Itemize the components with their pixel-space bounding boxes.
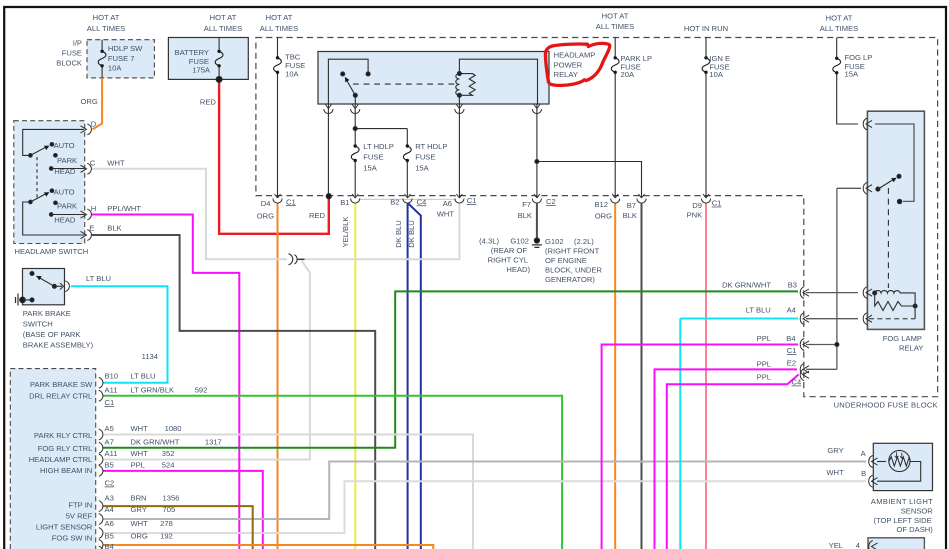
svg-text:LT GRN/BLK: LT GRN/BLK [131, 386, 175, 395]
svg-text:ORG: ORG [80, 97, 97, 106]
svg-text:175A: 175A [192, 66, 211, 75]
svg-text:HOT AT: HOT AT [210, 13, 237, 22]
svg-text:LT BLU: LT BLU [86, 274, 111, 283]
svg-text:FTP IN: FTP IN [68, 501, 92, 510]
svg-text:15A: 15A [845, 70, 859, 79]
svg-text:(BASE OF PARK: (BASE OF PARK [23, 330, 81, 339]
svg-text:A4: A4 [105, 505, 114, 514]
svg-text:WHT: WHT [131, 449, 149, 458]
svg-text:BRAKE ASSEMBLY): BRAKE ASSEMBLY) [23, 341, 94, 350]
svg-text:D: D [91, 120, 97, 129]
svg-text:ALL TIMES: ALL TIMES [87, 24, 125, 33]
svg-text:HOT IN RUN: HOT IN RUN [684, 24, 728, 33]
svg-text:278: 278 [160, 519, 173, 528]
svg-text:BLOCK, UNDER: BLOCK, UNDER [545, 266, 602, 275]
svg-text:PPL: PPL [757, 359, 771, 368]
svg-text:592: 592 [195, 386, 208, 395]
svg-text:PARK: PARK [57, 156, 77, 165]
svg-text:C2: C2 [546, 197, 556, 206]
svg-text:DK GRN/WHT: DK GRN/WHT [131, 438, 180, 447]
svg-text:(REAR OF: (REAR OF [491, 246, 528, 255]
svg-text:10A: 10A [709, 70, 723, 79]
svg-text:4: 4 [856, 541, 860, 549]
svg-text:B3: B3 [788, 280, 797, 289]
svg-text:FOG RLY CTRL: FOG RLY CTRL [38, 444, 93, 453]
svg-text:B1: B1 [340, 198, 349, 207]
svg-text:SWITCH: SWITCH [23, 320, 53, 329]
svg-text:FOG SW IN: FOG SW IN [52, 534, 93, 543]
svg-text:A11: A11 [105, 386, 118, 395]
svg-text:B12: B12 [594, 200, 608, 209]
svg-text:WHT: WHT [826, 468, 844, 477]
svg-text:WHT: WHT [437, 210, 455, 219]
svg-text:ALL TIMES: ALL TIMES [596, 22, 634, 31]
svg-text:SENSOR: SENSOR [901, 507, 934, 516]
svg-text:A7: A7 [105, 438, 114, 447]
svg-text:PPL/WHT: PPL/WHT [107, 204, 141, 213]
svg-text:C1: C1 [467, 196, 477, 205]
svg-text:YEL/BLK: YEL/BLK [341, 217, 350, 248]
svg-text:HOT AT: HOT AT [602, 12, 629, 21]
svg-text:RELAY: RELAY [554, 70, 578, 79]
svg-text:HEAD): HEAD) [506, 265, 530, 274]
svg-text:C4: C4 [417, 197, 427, 206]
svg-text:GRY: GRY [827, 446, 843, 455]
svg-text:FUSE: FUSE [363, 153, 383, 162]
svg-text:AUTO: AUTO [54, 141, 75, 150]
svg-text:ALL TIMES: ALL TIMES [820, 24, 858, 33]
svg-text:C: C [90, 158, 96, 167]
svg-text:BLK: BLK [518, 211, 532, 220]
svg-text:PARK BRAKE SW: PARK BRAKE SW [30, 380, 93, 389]
svg-text:RIGHT CYL: RIGHT CYL [488, 256, 528, 265]
svg-text:GENERATOR): GENERATOR) [545, 275, 595, 284]
svg-text:FOG LP: FOG LP [845, 53, 873, 62]
svg-text:PPL: PPL [757, 334, 771, 343]
svg-text:HEAD: HEAD [54, 167, 76, 176]
svg-text:BATTERY: BATTERY [175, 48, 209, 57]
svg-text:1356: 1356 [163, 494, 180, 503]
svg-text:C1: C1 [787, 346, 797, 355]
svg-text:OF ENGINE: OF ENGINE [545, 256, 587, 265]
svg-text:524: 524 [162, 460, 175, 469]
svg-text:ORG: ORG [131, 531, 148, 540]
svg-text:352: 352 [162, 449, 175, 458]
svg-text:HOT AT: HOT AT [826, 14, 853, 23]
svg-text:10A: 10A [108, 64, 122, 73]
svg-text:15A: 15A [363, 163, 377, 172]
svg-text:D9: D9 [692, 201, 702, 210]
svg-text:A6: A6 [443, 199, 452, 208]
svg-text:192: 192 [160, 531, 173, 540]
svg-text:B5: B5 [105, 460, 114, 469]
svg-text:20A: 20A [621, 70, 635, 79]
svg-text:B10: B10 [105, 372, 119, 381]
svg-text:RED: RED [309, 211, 326, 220]
svg-text:BLK: BLK [107, 223, 121, 232]
svg-text:RELAY: RELAY [899, 343, 923, 352]
svg-text:A11: A11 [105, 449, 118, 458]
svg-text:5V REF: 5V REF [66, 512, 93, 521]
svg-text:LT BLU: LT BLU [131, 372, 156, 381]
svg-text:BRN: BRN [131, 494, 147, 503]
svg-text:(TOP LEFT SIDE: (TOP LEFT SIDE [873, 516, 931, 525]
svg-text:C1: C1 [286, 197, 296, 206]
svg-text:AUTO: AUTO [54, 188, 75, 197]
svg-text:DK GRN/WHT: DK GRN/WHT [722, 280, 771, 289]
svg-text:RED: RED [200, 98, 217, 107]
svg-text:B4: B4 [105, 542, 114, 549]
svg-text:BLOCK: BLOCK [56, 59, 82, 68]
svg-text:FUSE: FUSE [62, 49, 82, 58]
svg-text:C1: C1 [712, 199, 722, 208]
svg-text:FUSE 7: FUSE 7 [108, 54, 135, 63]
svg-text:H: H [91, 204, 96, 213]
svg-text:WHT: WHT [131, 424, 149, 433]
svg-text:PNK: PNK [687, 211, 703, 220]
svg-text:HOT AT: HOT AT [266, 13, 293, 22]
svg-text:PARK: PARK [57, 202, 77, 211]
svg-text:YEL: YEL [829, 541, 843, 549]
svg-text:G102: G102 [510, 237, 529, 246]
svg-text:LT BLU: LT BLU [746, 306, 771, 315]
svg-text:PARK BRAKE: PARK BRAKE [23, 309, 71, 318]
svg-text:HEAD: HEAD [54, 215, 76, 224]
svg-text:C1: C1 [105, 398, 115, 407]
svg-text:(2.2L): (2.2L) [574, 237, 594, 246]
svg-text:(RIGHT FRONT: (RIGHT FRONT [545, 247, 600, 256]
svg-text:LIGHT SENSOR: LIGHT SENSOR [36, 523, 93, 532]
svg-text:E2: E2 [787, 358, 796, 367]
svg-text:B: B [861, 469, 866, 478]
svg-text:15A: 15A [415, 163, 429, 172]
svg-text:E: E [89, 223, 94, 232]
svg-text:1317: 1317 [205, 438, 222, 447]
svg-text:705: 705 [163, 505, 176, 514]
svg-text:DK BLU: DK BLU [394, 220, 403, 247]
svg-text:HEADLAMP SWITCH: HEADLAMP SWITCH [15, 247, 89, 256]
svg-text:WHT: WHT [107, 158, 125, 167]
svg-text:HEADLAMP: HEADLAMP [554, 51, 596, 60]
svg-text:G102: G102 [545, 237, 564, 246]
svg-text:PARK RLY CTRL: PARK RLY CTRL [34, 431, 92, 440]
svg-text:C2: C2 [105, 479, 115, 488]
svg-text:AMBIENT LIGHT: AMBIENT LIGHT [871, 497, 933, 506]
svg-text:FOG LAMP: FOG LAMP [883, 334, 922, 343]
svg-text:DRL RELAY CTRL: DRL RELAY CTRL [29, 391, 92, 400]
svg-text:B5: B5 [105, 531, 114, 540]
svg-text:I/P: I/P [73, 39, 82, 48]
svg-text:HOT AT: HOT AT [93, 13, 120, 22]
svg-text:1080: 1080 [165, 424, 182, 433]
svg-text:FUSE: FUSE [415, 153, 435, 162]
svg-text:OF DASH): OF DASH) [897, 525, 934, 534]
svg-text:ALL TIMES: ALL TIMES [260, 24, 298, 33]
svg-text:HIGH BEAM IN: HIGH BEAM IN [40, 466, 92, 475]
svg-text:PPL: PPL [131, 460, 145, 469]
svg-text:ORG: ORG [257, 212, 274, 221]
svg-text:A5: A5 [105, 424, 114, 433]
svg-text:B7: B7 [627, 201, 636, 210]
svg-text:A3: A3 [105, 494, 114, 503]
svg-text:C4: C4 [792, 378, 802, 387]
svg-text:POWER: POWER [554, 60, 583, 69]
svg-text:LT HDLP: LT HDLP [363, 142, 394, 151]
svg-text:A6: A6 [105, 519, 114, 528]
svg-text:1134: 1134 [142, 352, 158, 361]
svg-text:HDLP SW: HDLP SW [108, 44, 143, 53]
svg-text:B2: B2 [390, 198, 399, 207]
svg-text:F7: F7 [522, 200, 531, 209]
svg-text:PPL: PPL [757, 373, 771, 382]
svg-text:D4: D4 [261, 199, 271, 208]
svg-text:UNDERHOOD FUSE BLOCK: UNDERHOOD FUSE BLOCK [834, 401, 938, 410]
svg-text:(4.3L): (4.3L) [479, 237, 499, 246]
svg-text:GRY: GRY [131, 505, 147, 514]
svg-text:HEADLAMP CTRL: HEADLAMP CTRL [29, 455, 93, 464]
svg-text:B4: B4 [786, 334, 795, 343]
svg-text:RT HDLP: RT HDLP [415, 142, 447, 151]
svg-text:DK BLU: DK BLU [407, 220, 416, 247]
svg-text:A4: A4 [787, 306, 796, 315]
svg-text:BLK: BLK [623, 211, 637, 220]
svg-text:WHT: WHT [131, 519, 149, 528]
svg-text:TBC: TBC [285, 53, 301, 62]
svg-text:A: A [861, 449, 867, 458]
svg-text:ALL TIMES: ALL TIMES [204, 24, 242, 33]
svg-text:10A: 10A [285, 70, 299, 79]
svg-text:ORG: ORG [595, 212, 612, 221]
